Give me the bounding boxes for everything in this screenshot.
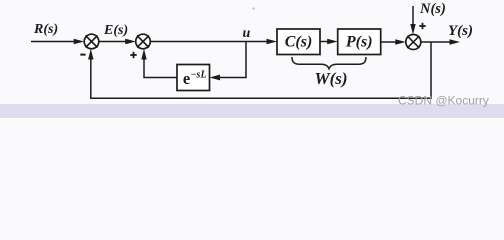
delay block e^-sL: [177, 65, 210, 91]
arrowhead into C(s): [267, 39, 278, 45]
summing junction S1: [84, 34, 99, 49]
svg-text:−sL: −sL: [191, 70, 207, 81]
bottom lavender band: [0, 104, 504, 118]
arrowhead at Y(s) output: [450, 39, 461, 45]
block P(s): [338, 29, 381, 55]
svg-text:R(s): R(s): [33, 22, 58, 37]
wire: u tap down to delay block input: [215, 42, 246, 78]
plus sign at N input: [419, 25, 425, 27]
arrowhead into S3: [395, 39, 406, 45]
wire: S2 to C(s): [150, 41, 271, 43]
summing junction S2: [136, 34, 151, 49]
svg-text:W(s): W(s): [314, 69, 347, 88]
arrowhead left into delay block: [210, 75, 221, 81]
svg-text:P(s): P(s): [345, 33, 373, 50]
wire: delay block output up into S2: [144, 54, 177, 78]
wire: S1 to S2: [99, 41, 130, 43]
plus sign at S2 feedback input: [130, 54, 136, 56]
scan speck: [252, 7, 254, 9]
wire: C(s) to P(s): [320, 41, 332, 43]
wire: feedback tap down from output: [91, 42, 431, 98]
svg-text:E(s): E(s): [103, 23, 128, 38]
wire: R(s) input line: [31, 41, 78, 43]
svg-text:e: e: [183, 69, 190, 88]
wire: N(s) input down into S3: [412, 6, 414, 29]
arrowhead up into S1: [88, 49, 93, 60]
wire: S3 to output Y(s): [421, 41, 454, 43]
wire: P(s) to S3: [381, 41, 400, 43]
svg-text:u: u: [243, 26, 251, 41]
svg-text:Y(s): Y(s): [448, 23, 473, 39]
svg-text:C(s): C(s): [285, 33, 313, 50]
underbrace for W(s): [292, 57, 366, 69]
minus sign at S1 feedback input: [80, 54, 85, 56]
arrowhead into summer S1: [74, 39, 85, 45]
arrowhead into P(s): [327, 39, 338, 45]
arrowhead down into S3: [410, 24, 415, 35]
arrowhead up into S2: [141, 49, 146, 60]
arrowhead into summer S2: [125, 39, 136, 45]
page background: [0, 0, 504, 118]
summing junction S3: [406, 35, 421, 50]
block C(s): [277, 29, 320, 55]
svg-text:N(s): N(s): [419, 1, 446, 17]
svg-text:CSDN @Kocurry: CSDN @Kocurry: [398, 94, 489, 108]
